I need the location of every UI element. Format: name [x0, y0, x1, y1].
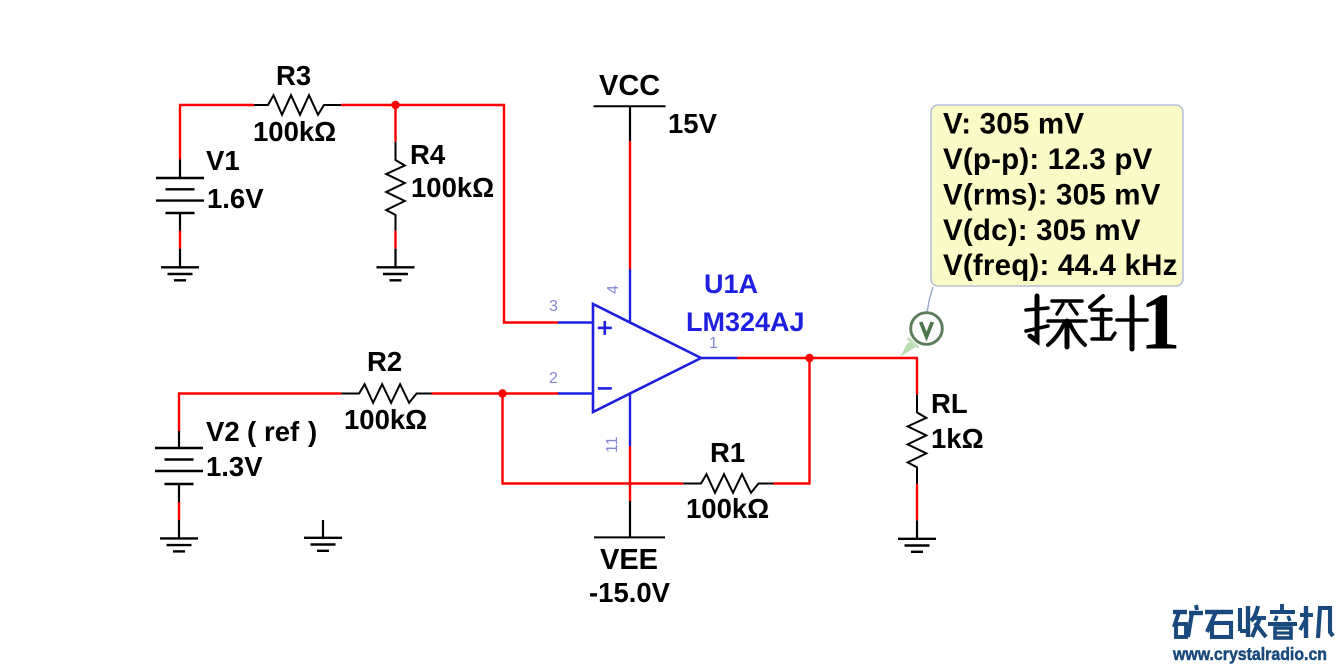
ground for V2 — [160, 538, 198, 551]
svg-text:1: 1 — [1140, 277, 1181, 367]
op-amp U1A triangle — [593, 304, 701, 412]
wire: junction down to R4 — [394, 105, 396, 142]
probe pointer arrow — [900, 338, 918, 357]
logo char yin — [1280, 604, 1284, 610]
svg-text:RL: RL — [931, 388, 968, 419]
junction dot inverting input node — [498, 389, 506, 397]
VEE power rail symbol — [594, 501, 665, 537]
watermark logo kuangshi shouyinji drawn glyphs — [1173, 604, 1333, 638]
svg-text:1.6V: 1.6V — [207, 183, 264, 214]
resistor R3 body — [254, 95, 341, 115]
junction dot node R3/R4 — [391, 101, 399, 109]
wire: RL bottom to ground — [916, 484, 918, 538]
char zhen metal radical — [1090, 296, 1103, 307]
svg-text:R1: R1 — [710, 437, 745, 468]
logo char shi — [1205, 610, 1233, 614]
svg-text:R2: R2 — [367, 346, 402, 377]
svg-text:VEE: VEE — [600, 544, 658, 576]
char tan hand radical — [1030, 296, 1037, 341]
ground for V1 — [161, 267, 199, 280]
wire: R3 right to op-amp plus input (top net) — [341, 105, 558, 323]
wire: feedback from inverting node down and right to R1 — [503, 394, 684, 484]
resistor RL body — [908, 395, 927, 484]
wire: V1 plus to R3 left (top-left corner net) — [180, 105, 254, 159]
svg-text:100kΩ: 100kΩ — [411, 172, 494, 203]
wire: R2 right to op-amp minus input — [432, 392, 559, 394]
probe V circle — [911, 313, 943, 345]
resistor R2 body — [341, 384, 431, 403]
char zhen cross part — [1117, 318, 1147, 322]
wire: VCC rail to op-amp pin 4 — [629, 141, 631, 269]
op-amp pin lead V+ pin 4 — [629, 269, 631, 322]
wire: V2 plus up to R2 left — [179, 394, 341, 432]
junction dot output node — [805, 354, 813, 362]
wire: op-amp pin 11 to VEE rail — [629, 446, 631, 501]
unconnected spare ground symbol — [304, 520, 342, 551]
svg-text:V1: V1 — [206, 145, 240, 176]
VCC power rail symbol — [594, 106, 666, 141]
wire: op-amp output to RL top — [737, 358, 917, 395]
svg-text:U1A: U1A — [704, 269, 758, 299]
probe leader line — [927, 287, 933, 312]
svg-text:VCC: VCC — [599, 70, 660, 102]
resistor R1 body — [683, 474, 773, 493]
battery V1 — [156, 159, 204, 230]
svg-text:R3: R3 — [276, 60, 311, 91]
svg-text:100kΩ: 100kΩ — [253, 116, 336, 147]
svg-text:100kΩ: 100kΩ — [344, 404, 427, 435]
wire: R1 right up to output node — [773, 358, 809, 484]
svg-text:V(dc): 305 mV: V(dc): 305 mV — [943, 214, 1141, 247]
op-amp pin lead V- pin 11 — [629, 395, 631, 447]
svg-text:11: 11 — [604, 436, 621, 453]
svg-text:1.3V: 1.3V — [206, 451, 263, 482]
logo char ji — [1300, 613, 1313, 617]
op-amp pin lead inverting input — [558, 392, 592, 394]
svg-text:V: 305 mV: V: 305 mV — [943, 108, 1084, 141]
svg-text:4: 4 — [605, 285, 622, 294]
probe measurement box — [931, 105, 1183, 286]
battery V2 — [155, 431, 203, 502]
logo char shou — [1238, 608, 1242, 631]
svg-text:LM324AJ: LM324AJ — [686, 307, 805, 337]
op-amp pin lead non-inverting input — [558, 321, 592, 323]
svg-text:100kΩ: 100kΩ — [686, 493, 769, 524]
wire: V1 minus to ground — [179, 231, 181, 267]
svg-text:R4: R4 — [410, 139, 446, 170]
svg-text:2: 2 — [549, 370, 558, 387]
svg-text:V(rms): 305 mV: V(rms): 305 mV — [943, 179, 1161, 212]
ground for RL — [898, 539, 936, 552]
svg-text:1: 1 — [709, 335, 718, 352]
svg-text:1kΩ: 1kΩ — [931, 423, 984, 454]
svg-text:3: 3 — [549, 298, 558, 315]
ground for R4 — [377, 267, 415, 280]
svg-text:V(p-p): 12.3 pV: V(p-p): 12.3 pV — [943, 143, 1153, 176]
char tan right part — [1052, 299, 1082, 303]
resistor R4 body — [386, 142, 405, 231]
wire: V2 minus to ground — [178, 502, 180, 538]
wire: R4 to ground — [394, 231, 396, 267]
logo char kuang — [1173, 610, 1187, 614]
svg-text:www.crystalradio.cn: www.crystalradio.cn — [1172, 644, 1327, 664]
svg-text:-15.0V: -15.0V — [589, 577, 671, 608]
op-amp pin lead output — [701, 357, 737, 359]
probe name tan-zhen-1 drawn glyphs — [1026, 296, 1147, 349]
svg-text:15V: 15V — [668, 108, 718, 139]
